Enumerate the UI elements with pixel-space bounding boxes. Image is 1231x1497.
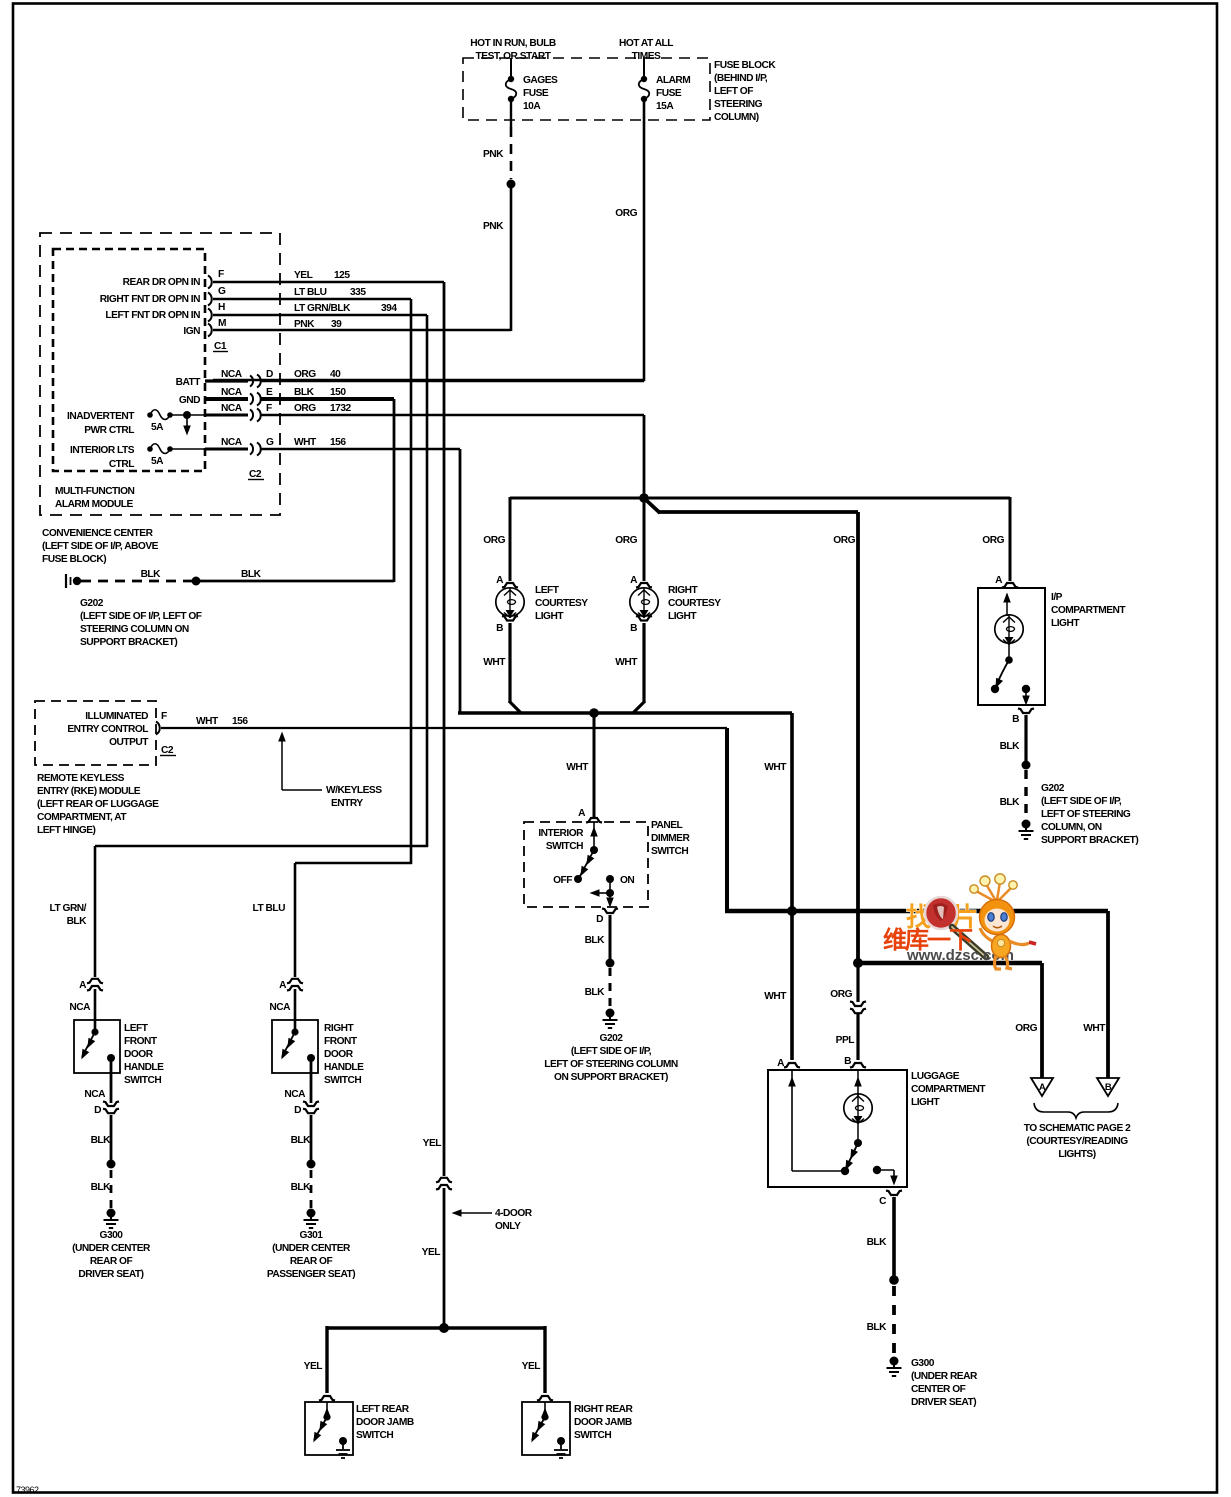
svg-text:COLUMN, ON: COLUMN, ON bbox=[1041, 822, 1102, 833]
wire BLK left door bbox=[91, 1115, 112, 1160]
left courtesy light lamp bbox=[496, 585, 589, 622]
pin F REAR DR OPN IN bbox=[123, 269, 224, 289]
watermark mascot bbox=[970, 874, 1036, 969]
svg-text:GND: GND bbox=[179, 395, 200, 406]
connector inline YEL bbox=[423, 1138, 452, 1190]
svg-text:PWR CTRL: PWR CTRL bbox=[84, 425, 134, 436]
wire NCA into left door switch bbox=[94, 989, 97, 1032]
svg-text:H: H bbox=[218, 302, 225, 313]
right courtesy light pin B bbox=[630, 616, 652, 634]
pin G INTERIOR LTS CTRL bbox=[205, 437, 274, 456]
svg-text:FRONT: FRONT bbox=[324, 1036, 358, 1047]
svg-text:RIGHT REAR: RIGHT REAR bbox=[574, 1404, 634, 1415]
svg-text:LEFT FNT DR OPN IN: LEFT FNT DR OPN IN bbox=[105, 310, 200, 321]
svg-text:G: G bbox=[266, 437, 274, 448]
fuse 5A inadvertent bbox=[67, 410, 205, 436]
svg-text:FRONT: FRONT bbox=[124, 1036, 158, 1047]
wire BLK dashed right door ground bbox=[291, 1170, 312, 1208]
wire YEL to rear jamb tee bbox=[422, 1188, 444, 1328]
svg-text:DOOR JAMB: DOOR JAMB bbox=[574, 1417, 632, 1428]
svg-text:ENTRY CONTROL: ENTRY CONTROL bbox=[67, 724, 148, 735]
svg-text:F: F bbox=[161, 711, 167, 722]
junction splice BLK left door bbox=[107, 1160, 116, 1169]
G202 IP label bbox=[1041, 783, 1138, 846]
wire BLK dashed to G202 bbox=[81, 569, 194, 581]
svg-text:COMPARTMENT, AT: COMPARTMENT, AT bbox=[37, 812, 127, 823]
wire BLK from luggage light bbox=[867, 1197, 894, 1276]
wire into gages fuse bbox=[510, 58, 512, 77]
junction splice WHT luggage bbox=[787, 906, 797, 916]
pin F INADVERTENT PWR CTRL bbox=[205, 403, 272, 422]
ground G301 right door bbox=[304, 1209, 319, 1229]
left courtesy light pin A bbox=[496, 575, 518, 588]
svg-text:DOOR: DOOR bbox=[324, 1049, 354, 1060]
wire LT GRN/BLK 394 bbox=[213, 303, 427, 315]
interior switch bbox=[538, 822, 634, 886]
svg-text:STEERING: STEERING bbox=[714, 99, 763, 110]
wire BLK right door bbox=[291, 1115, 312, 1160]
svg-text:B: B bbox=[1105, 1082, 1112, 1093]
svg-text:B: B bbox=[630, 623, 637, 634]
svg-text:REMOTE KEYLESS: REMOTE KEYLESS bbox=[37, 773, 125, 784]
connector C1 label bbox=[213, 341, 228, 352]
left rear door jamb switch box bbox=[305, 1402, 353, 1455]
svg-text:HOT IN RUN, BULB: HOT IN RUN, BULB bbox=[470, 38, 556, 49]
svg-text:BLK: BLK bbox=[241, 569, 262, 580]
svg-text:LEFT OF STEERING COLUMN: LEFT OF STEERING COLUMN bbox=[544, 1059, 678, 1070]
svg-text:394: 394 bbox=[381, 303, 397, 314]
convenience center outer box bbox=[40, 233, 280, 515]
right front door handle switch bbox=[278, 1028, 315, 1062]
right rear door jamb switch bbox=[528, 1402, 565, 1445]
svg-text:A: A bbox=[496, 575, 504, 586]
svg-text:LT BLU: LT BLU bbox=[253, 903, 286, 914]
svg-text:(UNDER REAR: (UNDER REAR bbox=[911, 1371, 978, 1382]
wire YEL tee bus bbox=[304, 1326, 545, 1393]
right front door handle switch box bbox=[272, 1020, 318, 1073]
gages fuse 10A bbox=[506, 75, 558, 112]
svg-text:PPL: PPL bbox=[836, 1035, 855, 1046]
svg-text:156: 156 bbox=[232, 716, 248, 727]
brace to schematic page 2 bbox=[1024, 1103, 1131, 1160]
G300 luggage label bbox=[911, 1358, 978, 1408]
svg-text:RIGHT FNT DR OPN IN: RIGHT FNT DR OPN IN bbox=[100, 294, 200, 305]
G300 left door label bbox=[72, 1230, 151, 1280]
svg-text:SWITCH: SWITCH bbox=[324, 1075, 361, 1086]
RKE module label bbox=[37, 773, 159, 836]
right rear door jamb switch box bbox=[522, 1402, 570, 1455]
svg-text:PNK: PNK bbox=[483, 149, 504, 160]
svg-text:BLK: BLK bbox=[291, 1135, 312, 1146]
wire ORG from pin F down to splice bbox=[643, 415, 646, 498]
G202 dimmer label bbox=[544, 1033, 678, 1083]
svg-text:ENTRY: ENTRY bbox=[331, 798, 363, 809]
svg-text:YEL: YEL bbox=[294, 270, 313, 281]
svg-text:D: D bbox=[266, 369, 273, 380]
pin G RIGHT FNT DR OPN IN bbox=[100, 286, 226, 306]
panel dimmer switch box bbox=[524, 822, 648, 907]
svg-text:COURTESY: COURTESY bbox=[535, 598, 588, 609]
svg-text:ORG: ORG bbox=[615, 208, 637, 219]
svg-text:I/P: I/P bbox=[1051, 592, 1063, 603]
svg-text:B: B bbox=[844, 1056, 851, 1067]
svg-text:BLK: BLK bbox=[867, 1322, 888, 1333]
svg-text:39: 39 bbox=[331, 319, 342, 330]
wire BLK dashed luggage ground bbox=[867, 1286, 894, 1355]
svg-text:LIGHT: LIGHT bbox=[535, 611, 564, 622]
svg-text:ORG: ORG bbox=[294, 403, 316, 414]
svg-text:(LEFT SIDE OF I/P, ABOVE: (LEFT SIDE OF I/P, ABOVE bbox=[42, 541, 159, 552]
ground left rear jamb bbox=[336, 1441, 350, 1458]
svg-text:NCA: NCA bbox=[269, 1002, 291, 1013]
svg-text:LIGHTS): LIGHTS) bbox=[1058, 1149, 1095, 1160]
junction splice ORG courtesy bbox=[639, 493, 649, 503]
svg-text:WHT: WHT bbox=[294, 437, 317, 448]
ground G300 left door bbox=[104, 1209, 119, 1229]
svg-text:73962: 73962 bbox=[16, 1485, 39, 1495]
IP compartment light pin A bbox=[995, 575, 1018, 588]
svg-text:MULTI-FUNCTION: MULTI-FUNCTION bbox=[55, 486, 135, 497]
svg-text:BLK: BLK bbox=[1000, 797, 1021, 808]
left rear door jamb switch label bbox=[356, 1404, 414, 1441]
ground G300 luggage bbox=[887, 1357, 902, 1377]
svg-text:125: 125 bbox=[334, 270, 350, 281]
ground right rear jamb bbox=[554, 1441, 568, 1458]
svg-text:INADVERTENT: INADVERTENT bbox=[67, 411, 135, 422]
svg-text:ORG: ORG bbox=[1015, 1023, 1037, 1034]
wire BLK from dimmer bbox=[585, 915, 610, 959]
svg-text:SWITCH: SWITCH bbox=[546, 841, 583, 852]
svg-text:NCA: NCA bbox=[84, 1089, 106, 1100]
fuse 5A interior lts bbox=[70, 444, 205, 470]
convenience center label bbox=[42, 528, 159, 565]
svg-text:F: F bbox=[218, 269, 224, 280]
right courtesy light pin A bbox=[630, 575, 652, 588]
svg-text:LEFT OF: LEFT OF bbox=[714, 86, 753, 97]
wire LT GRN/BLK vertical run bbox=[95, 315, 428, 847]
svg-text:WHT: WHT bbox=[764, 991, 787, 1002]
svg-text:(LEFT SIDE OF I/P,: (LEFT SIDE OF I/P, bbox=[1041, 796, 1122, 807]
right front door wire down bbox=[294, 863, 297, 977]
wire WHT to panel dimmer switch bbox=[566, 713, 594, 818]
pin M IGN bbox=[183, 318, 226, 337]
svg-text:LEFT REAR: LEFT REAR bbox=[356, 1404, 410, 1415]
right courtesy light lamp bbox=[630, 585, 722, 622]
connector A right front door bbox=[269, 979, 303, 1013]
svg-text:ENTRY (RKE) MODULE: ENTRY (RKE) MODULE bbox=[37, 786, 141, 797]
svg-text:DIMMER: DIMMER bbox=[651, 833, 690, 844]
connector D right front door bbox=[284, 1058, 319, 1116]
svg-text:YEL: YEL bbox=[522, 1361, 541, 1372]
watermark dzsc logo bbox=[883, 897, 1014, 964]
fuse block location label bbox=[714, 60, 776, 123]
svg-text:A: A bbox=[578, 808, 586, 819]
svg-text:G300: G300 bbox=[911, 1358, 935, 1369]
svg-text:A: A bbox=[79, 980, 87, 991]
svg-text:150: 150 bbox=[330, 387, 346, 398]
svg-text:TEST, OR START: TEST, OR START bbox=[476, 51, 552, 62]
svg-text:ORG: ORG bbox=[615, 535, 637, 546]
G301 right door label bbox=[267, 1230, 355, 1280]
svg-text:WHT: WHT bbox=[196, 716, 219, 727]
left front door wire down bbox=[94, 846, 97, 977]
right rear door jamb switch label bbox=[574, 1404, 634, 1441]
wire WHT from RKE corner down bbox=[725, 728, 1108, 913]
svg-text:IGN: IGN bbox=[183, 326, 200, 337]
svg-text:ORG: ORG bbox=[830, 989, 852, 1000]
svg-text:HANDLE: HANDLE bbox=[124, 1062, 164, 1073]
svg-text:NCA: NCA bbox=[221, 437, 243, 448]
junction splice inadvertent bbox=[183, 411, 191, 436]
net label HOT AT ALL TIMES bbox=[619, 38, 673, 62]
svg-text:BLK: BLK bbox=[141, 569, 162, 580]
svg-text:SWITCH: SWITCH bbox=[574, 1430, 611, 1441]
svg-text:CONVENIENCE CENTER: CONVENIENCE CENTER bbox=[42, 528, 154, 539]
svg-text:OFF: OFF bbox=[553, 875, 572, 886]
wire WHT to luggage light pin A bbox=[764, 713, 792, 1060]
wire BLK solid from splice to pin E bbox=[196, 399, 394, 582]
wire PNK 39 label bbox=[294, 319, 342, 330]
svg-text:LEFT: LEFT bbox=[124, 1023, 149, 1034]
svg-text:D: D bbox=[596, 914, 603, 925]
off-page arrow A bbox=[1031, 1078, 1053, 1096]
wire BLK dashed left door ground bbox=[91, 1170, 112, 1208]
svg-text:BLK: BLK bbox=[585, 987, 606, 998]
wire NCA into right door switch bbox=[294, 989, 297, 1032]
wire WHT left courtesy lead bbox=[483, 623, 521, 713]
svg-text:BLK: BLK bbox=[867, 1237, 888, 1248]
wire WHT horizontal courtesy bus bbox=[458, 711, 792, 715]
svg-text:WHT: WHT bbox=[483, 657, 506, 668]
svg-text:COLUMN): COLUMN) bbox=[714, 112, 759, 123]
callout 4-DOOR ONLY bbox=[452, 1208, 533, 1232]
svg-text:BLK: BLK bbox=[294, 387, 315, 398]
pin E GND bbox=[179, 387, 273, 406]
svg-text:A: A bbox=[777, 1058, 785, 1069]
svg-text:SWITCH: SWITCH bbox=[356, 1430, 393, 1441]
junction splice BLK right door bbox=[307, 1160, 316, 1169]
svg-text:G202: G202 bbox=[1041, 783, 1065, 794]
svg-text:ORG: ORG bbox=[294, 369, 316, 380]
IP compartment lamp and switch bbox=[991, 593, 1030, 706]
fuse block box bbox=[463, 58, 710, 120]
svg-text:NCA: NCA bbox=[69, 1002, 91, 1013]
svg-text:PASSENGER SEAT): PASSENGER SEAT) bbox=[267, 1269, 355, 1280]
luggage compartment light box bbox=[768, 1070, 907, 1187]
wire ORG 40 bbox=[260, 369, 644, 381]
svg-text:G202: G202 bbox=[80, 598, 104, 609]
svg-text:C2: C2 bbox=[249, 469, 262, 480]
svg-text:COMPARTMENT: COMPARTMENT bbox=[1051, 605, 1126, 616]
dimmer wiper arrow bbox=[590, 879, 615, 908]
panel dimmer switch label bbox=[651, 820, 690, 857]
wire LT BLU vertical run bbox=[295, 299, 412, 864]
wire BLK from IP light bbox=[1000, 715, 1026, 761]
svg-text:CENTER OF: CENTER OF bbox=[911, 1384, 966, 1395]
left courtesy light pin B bbox=[496, 616, 518, 634]
svg-text:G300: G300 bbox=[100, 1230, 124, 1241]
svg-text:5A: 5A bbox=[151, 422, 164, 433]
svg-text:W/KEYLESS: W/KEYLESS bbox=[326, 785, 382, 796]
junction splice WHT courtesy bbox=[589, 708, 599, 718]
connector C2 label bbox=[248, 469, 264, 480]
svg-text:LT GRN/: LT GRN/ bbox=[50, 903, 87, 914]
wire BLK dashed dimmer ground bbox=[585, 968, 610, 1008]
wire ORG to IP compartment light bbox=[644, 497, 1010, 581]
svg-text:FUSE BLOCK: FUSE BLOCK bbox=[714, 60, 776, 71]
svg-text:SUPPORT BRACKET): SUPPORT BRACKET) bbox=[1041, 835, 1138, 846]
left front door handle switch bbox=[78, 1028, 115, 1062]
luggage lamp and switch bbox=[788, 1070, 898, 1186]
svg-text:C2: C2 bbox=[161, 745, 174, 756]
svg-text:LIGHT: LIGHT bbox=[668, 611, 697, 622]
svg-text:REAR OF: REAR OF bbox=[90, 1256, 133, 1267]
svg-text:RIGHT: RIGHT bbox=[324, 1023, 354, 1034]
svg-text:ILLUMINATED: ILLUMINATED bbox=[85, 711, 148, 722]
svg-text:SWITCH: SWITCH bbox=[651, 846, 688, 857]
RKE output pin F bbox=[67, 711, 176, 756]
wire WHT right courtesy lead bbox=[615, 623, 645, 713]
svg-text:(LEFT SIDE OF I/P, LEFT OF: (LEFT SIDE OF I/P, LEFT OF bbox=[80, 611, 202, 622]
junction splice YEL bbox=[439, 1323, 449, 1333]
svg-text:FUSE: FUSE bbox=[523, 88, 549, 99]
net label HOT IN RUN bbox=[470, 38, 556, 62]
pin D BATT bbox=[176, 369, 273, 388]
svg-text:F: F bbox=[266, 403, 272, 414]
IP compartment light label bbox=[1051, 592, 1126, 629]
svg-text:335: 335 bbox=[350, 287, 366, 298]
svg-text:COMPARTMENT: COMPARTMENT bbox=[911, 1084, 986, 1095]
svg-text:WHT: WHT bbox=[1083, 1023, 1106, 1034]
wire BLK 150 bbox=[260, 387, 394, 399]
svg-text:DOOR JAMB: DOOR JAMB bbox=[356, 1417, 414, 1428]
svg-text:YEL: YEL bbox=[422, 1247, 441, 1258]
alarm module label bbox=[55, 486, 135, 510]
ground G202 IP bbox=[1019, 820, 1034, 840]
svg-text:YEL: YEL bbox=[423, 1138, 442, 1149]
svg-text:REAR OF: REAR OF bbox=[290, 1256, 333, 1267]
svg-text:A: A bbox=[630, 575, 638, 586]
svg-text:CTRL: CTRL bbox=[109, 459, 134, 470]
left front door handle switch label bbox=[124, 1023, 164, 1086]
svg-text:BLK: BLK bbox=[91, 1182, 112, 1193]
svg-text:NCA: NCA bbox=[221, 369, 243, 380]
svg-text:WHT: WHT bbox=[764, 762, 787, 773]
svg-text:BLK: BLK bbox=[1000, 741, 1021, 752]
wire ORG to right courtesy light bbox=[615, 498, 644, 581]
svg-text:BLK: BLK bbox=[585, 935, 606, 946]
wire into alarm fuse bbox=[643, 58, 645, 77]
svg-text:TO SCHEMATIC PAGE 2: TO SCHEMATIC PAGE 2 bbox=[1024, 1123, 1131, 1134]
svg-text:NCA: NCA bbox=[221, 403, 243, 414]
svg-text:B: B bbox=[1012, 714, 1019, 725]
luggage light pin C bbox=[879, 1191, 902, 1208]
multi-function alarm module box bbox=[53, 249, 205, 471]
G202 left label bbox=[80, 598, 202, 648]
left front door handle switch box bbox=[74, 1020, 120, 1073]
svg-text:A: A bbox=[995, 575, 1003, 586]
svg-text:A: A bbox=[1039, 1082, 1046, 1093]
wire YEL vertical run bbox=[443, 282, 446, 1176]
svg-text:40: 40 bbox=[330, 369, 341, 380]
svg-text:LT BLU: LT BLU bbox=[294, 287, 327, 298]
svg-text:FUSE BLOCK): FUSE BLOCK) bbox=[42, 554, 106, 565]
svg-text:RIGHT: RIGHT bbox=[668, 585, 698, 596]
alarm fuse 15A bbox=[639, 75, 691, 112]
svg-text:LIGHT: LIGHT bbox=[911, 1097, 940, 1108]
svg-text:DOOR: DOOR bbox=[124, 1049, 154, 1060]
wire ORG 1732 bbox=[260, 403, 644, 415]
junction splice PNK bbox=[507, 180, 516, 189]
svg-text:TIMES: TIMES bbox=[632, 51, 661, 62]
pin H LEFT FNT DR OPN IN bbox=[105, 302, 225, 322]
ground G202 dimmer bbox=[603, 1009, 618, 1029]
wire ORG to off-page arrow A bbox=[858, 963, 1042, 1078]
svg-text:BLK: BLK bbox=[291, 1182, 312, 1193]
wire ORG from alarm fuse to pin D bbox=[213, 101, 645, 381]
panel dimmer pin A bbox=[578, 808, 602, 823]
svg-text:A: A bbox=[279, 980, 287, 991]
svg-text:SWITCH: SWITCH bbox=[124, 1075, 161, 1086]
svg-text:C1: C1 bbox=[214, 341, 227, 352]
svg-text:G: G bbox=[218, 286, 226, 297]
wire LT BLU 335 bbox=[213, 287, 411, 299]
ground G202 left bbox=[66, 574, 81, 588]
wire ORG PPL to luggage pin B bbox=[830, 963, 866, 1060]
svg-text:D: D bbox=[294, 1105, 301, 1116]
svg-text:ON: ON bbox=[620, 875, 634, 886]
wire ORG to left courtesy light bbox=[483, 497, 644, 581]
svg-text:C: C bbox=[879, 1196, 887, 1207]
svg-text:(LEFT SIDE OF I/P,: (LEFT SIDE OF I/P, bbox=[571, 1046, 652, 1057]
wire YEL 125 bbox=[213, 270, 444, 282]
svg-text:LEFT: LEFT bbox=[535, 585, 560, 596]
svg-text:HANDLE: HANDLE bbox=[324, 1062, 364, 1073]
junction splice BLK IP bbox=[1022, 761, 1031, 770]
svg-text:(BEHIND I/P,: (BEHIND I/P, bbox=[714, 73, 768, 84]
svg-text:(COURTESY/READING: (COURTESY/READING bbox=[1026, 1136, 1128, 1147]
svg-text:LEFT HINGE): LEFT HINGE) bbox=[37, 825, 96, 836]
svg-text:LIGHT: LIGHT bbox=[1051, 618, 1080, 629]
svg-text:YEL: YEL bbox=[304, 1361, 323, 1372]
svg-text:WHT: WHT bbox=[615, 657, 638, 668]
svg-text:1732: 1732 bbox=[330, 403, 351, 414]
wire LT BLU label bbox=[253, 903, 286, 914]
IP compartment light box bbox=[978, 588, 1045, 705]
luggage compartment light label bbox=[911, 1071, 986, 1108]
svg-text:LT GRN/BLK: LT GRN/BLK bbox=[294, 303, 351, 314]
svg-text:ONLY: ONLY bbox=[495, 1221, 521, 1232]
svg-text:LUGGAGE: LUGGAGE bbox=[911, 1071, 960, 1082]
svg-text:(LEFT REAR OF LUGGAGE: (LEFT REAR OF LUGGAGE bbox=[37, 799, 159, 810]
svg-text:B: B bbox=[496, 623, 503, 634]
svg-text:E: E bbox=[266, 387, 273, 398]
svg-text:PANEL: PANEL bbox=[651, 820, 683, 831]
right front door handle switch label bbox=[324, 1023, 364, 1086]
svg-text:FUSE: FUSE bbox=[656, 88, 682, 99]
svg-text:SUPPORT BRACKET): SUPPORT BRACKET) bbox=[80, 637, 177, 648]
wire LT GRN/BLK label bbox=[50, 903, 88, 927]
svg-text:BLK: BLK bbox=[91, 1135, 112, 1146]
svg-text:STEERING COLUMN ON: STEERING COLUMN ON bbox=[80, 624, 189, 635]
svg-text:INTERIOR: INTERIOR bbox=[538, 828, 584, 839]
svg-text:ORG: ORG bbox=[483, 535, 505, 546]
svg-text:G301: G301 bbox=[300, 1230, 324, 1241]
svg-text:DRIVER SEAT): DRIVER SEAT) bbox=[78, 1269, 143, 1280]
panel dimmer pin D bbox=[596, 909, 618, 926]
svg-text:5A: 5A bbox=[151, 456, 164, 467]
junction splice ORG luggage bbox=[853, 958, 863, 968]
